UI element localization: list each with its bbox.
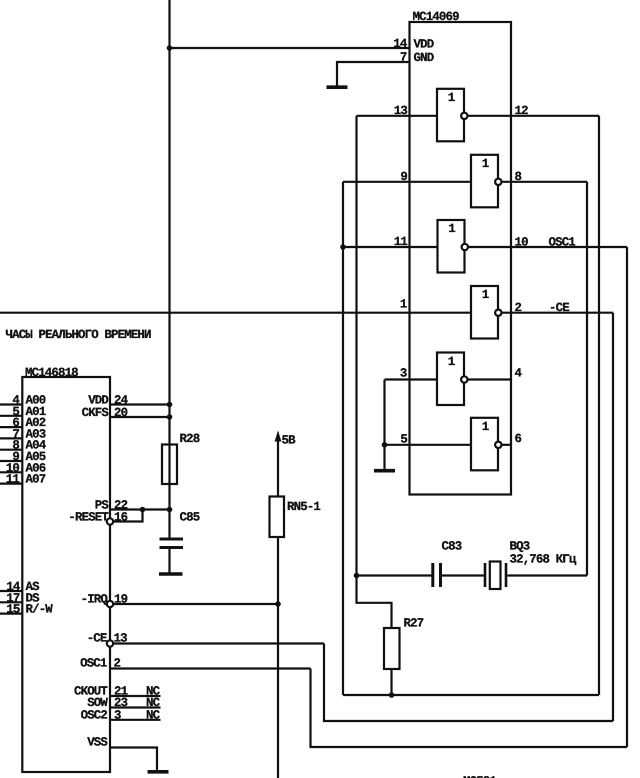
- wire pin14 AS stub: [0, 590, 22, 592]
- svg-text:12: 12: [515, 104, 529, 118]
- wire pin9 input inverter U1B: [343, 181, 471, 183]
- node junction -IRQ at RN5-1: [275, 601, 281, 607]
- wire pin4 A00 stub: [0, 403, 22, 405]
- chip MC14069 body: [410, 22, 512, 495]
- svg-text:R27: R27: [404, 617, 424, 631]
- svg-text:NC: NC: [146, 708, 161, 722]
- wire feedback vertical net pin12 pin9 pin11: [342, 182, 344, 695]
- ground for pin7: [327, 85, 348, 89]
- op inverter U1B box: [471, 155, 498, 208]
- svg-text:CKFS: CKFS: [82, 406, 110, 420]
- svg-text:-IRQ: -IRQ: [81, 593, 109, 607]
- svg-text:2: 2: [515, 301, 522, 315]
- wire pin22 PS: [110, 508, 170, 510]
- wire crystal row left segment: [357, 574, 432, 576]
- wire pin13 input inverter U1A: [357, 115, 438, 117]
- svg-text:13: 13: [394, 104, 408, 118]
- svg-text:3: 3: [400, 367, 407, 381]
- svg-text:OSC1: OSC1: [549, 235, 576, 249]
- wire BQ3 right segment: [507, 574, 587, 576]
- svg-text:VDD: VDD: [414, 38, 434, 52]
- wire pin2 output inverter U1D -CE: [498, 312, 613, 314]
- wire pin11 input inverter U1C: [343, 246, 438, 248]
- svg-text:9: 9: [400, 170, 407, 184]
- wire pin6 A02 stub: [0, 426, 22, 428]
- svg-text:1: 1: [482, 420, 489, 434]
- wire pin7 GND of MC14069: [337, 62, 411, 86]
- chip MC146818 body: [22, 377, 110, 772]
- svg-text:OSC1: OSC1: [80, 657, 107, 671]
- wire pin8 A04 stub: [0, 449, 22, 451]
- wire bottom loop pin12 net: [343, 694, 599, 696]
- wire pin15 R/-W stub: [0, 612, 22, 614]
- svg-text:1: 1: [448, 222, 455, 236]
- node junction crystal left net: [354, 573, 360, 579]
- wire bottom loop OSC1 net: [311, 669, 628, 748]
- wire bottom loop -CE net: [324, 644, 613, 722]
- ground for U1E U1F inputs: [374, 469, 395, 473]
- node junction PS net at R28 line: [167, 507, 173, 513]
- svg-text:MC14069: MC14069: [413, 10, 460, 24]
- node junction VDD net at R28 line: [167, 402, 173, 408]
- bubble output U1D: [495, 310, 501, 316]
- svg-text:ЧАСЫ РЕАЛЬНОГО ВРЕМЕНИ: ЧАСЫ РЕАЛЬНОГО ВРЕМЕНИ: [6, 328, 152, 342]
- ground for VSS: [148, 770, 169, 774]
- wire jog from crystal net down to R27: [357, 576, 392, 629]
- wire pin3 input inverter U1E: [385, 378, 438, 380]
- node junction pin11 to feedback vertical: [340, 244, 346, 250]
- bubble output U1F: [495, 442, 501, 448]
- op inverter U1C box: [438, 220, 465, 273]
- wire OSC1 right vertical: [626, 247, 628, 747]
- wire C83 to BQ3: [442, 574, 484, 576]
- wire pin24 VDD: [110, 403, 170, 405]
- bubble -CE inverted pin: [107, 640, 113, 646]
- wire RN5-1 bottom leg to bottom edge: [277, 537, 279, 778]
- wire pin16 -RESET: [113, 510, 142, 522]
- wire pin7 A03 stub: [0, 437, 22, 439]
- wire R27 bottom leg: [390, 669, 392, 695]
- wire -CE right vertical: [612, 313, 614, 721]
- bubble -IRQ inverted pin: [107, 601, 113, 607]
- wire pin14 VDD of MC14069: [170, 47, 411, 49]
- wire pin8 output inverter U1B: [498, 181, 587, 183]
- resistor R27: [384, 628, 400, 669]
- wire pin1 input inverter U1D from left edge: [0, 312, 471, 314]
- node junction PS wire at reset tie: [140, 507, 146, 513]
- wire pin2 OSC1: [110, 667, 311, 669]
- resistor R28: [162, 445, 177, 485]
- svg-text:7: 7: [400, 51, 407, 65]
- resistor RN5-1: [270, 497, 285, 538]
- wire pin3 OSC2 NC stub: [110, 719, 161, 721]
- svg-text:GND: GND: [414, 51, 434, 65]
- wire pin23 SOW NC stub: [110, 706, 161, 708]
- op inverter U1A box: [437, 89, 464, 142]
- svg-text:-RESET: -RESET: [68, 511, 109, 525]
- node junction R27 bottom on loop: [389, 692, 395, 698]
- wire pin12 right vertical: [598, 116, 600, 695]
- svg-text:BQ3: BQ3: [510, 540, 530, 554]
- svg-text:R/-W: R/-W: [26, 603, 54, 617]
- wire pin4 output inverter U1E: [464, 378, 511, 380]
- wire pin13 -CE: [113, 642, 324, 644]
- op inverter U1E box: [437, 353, 464, 406]
- wire pin9 A05 stub: [0, 460, 22, 462]
- svg-text:8: 8: [515, 170, 522, 184]
- svg-text:-CE: -CE: [549, 301, 569, 315]
- svg-text:15: 15: [6, 603, 20, 617]
- wire pin12 output inverter U1A: [464, 115, 599, 117]
- wire pin11 A07 stub: [0, 483, 22, 485]
- wire crystal left vertical net pin13: [355, 116, 357, 576]
- svg-text:C83: C83: [442, 540, 462, 554]
- svg-text:11: 11: [394, 235, 408, 249]
- wire pin21 CKOUT NC stub: [110, 695, 161, 697]
- wire pin19 -IRQ: [113, 603, 278, 605]
- svg-text:VSS: VSS: [87, 736, 108, 750]
- svg-text:1: 1: [448, 91, 455, 105]
- capacitor C83: [431, 563, 442, 587]
- node junction VDD net: [167, 45, 173, 51]
- svg-text:OSC2: OSC2: [81, 708, 108, 722]
- op inverter U1F box: [471, 418, 498, 471]
- wire VSS pin to ground: [110, 748, 157, 771]
- svg-text:10: 10: [515, 235, 529, 249]
- bubble output U1E: [461, 376, 467, 382]
- svg-text:32,768 КГц: 32,768 КГц: [510, 553, 577, 567]
- svg-text:R28: R28: [180, 432, 200, 446]
- node junction pin5 ground tie: [382, 442, 388, 448]
- wire pin6 output inverter U1F: [498, 444, 511, 446]
- ground for C85: [159, 572, 183, 576]
- node junction CKFS net at R28 line: [167, 414, 173, 420]
- svg-text:4: 4: [515, 367, 523, 381]
- bubble output U1A: [461, 113, 467, 119]
- bubble output U1B: [495, 179, 501, 185]
- svg-text:6: 6: [515, 432, 522, 446]
- bubble output U1C: [462, 244, 468, 250]
- svg-text:MC581: MC581: [463, 775, 496, 778]
- svg-text:RN5-1: RN5-1: [287, 500, 320, 514]
- svg-text:MC146818: MC146818: [25, 366, 78, 380]
- wire pin17 DS stub: [0, 601, 22, 603]
- svg-text:-CE: -CE: [87, 632, 107, 646]
- svg-text:14: 14: [393, 37, 408, 51]
- svg-text:C85: C85: [180, 511, 200, 525]
- crystal BQ3: [484, 562, 508, 590]
- wire VDD supply vertical net: [168, 0, 170, 573]
- bubble -RESET inverted pin: [107, 518, 113, 524]
- wire pin10 A06 stub: [0, 471, 22, 473]
- svg-text:1: 1: [448, 355, 455, 369]
- capacitor C85: [160, 538, 184, 550]
- wire input ground tie vertical U1E U1F: [383, 380, 385, 470]
- wire pin8 right vertical to crystal: [586, 182, 588, 576]
- svg-text:A07: A07: [26, 473, 46, 487]
- wire pin20 CKFS: [110, 416, 170, 418]
- svg-text:1: 1: [482, 288, 489, 302]
- wire pin5 input inverter U1F: [385, 444, 472, 446]
- svg-text:5В: 5В: [282, 434, 297, 448]
- svg-text:1: 1: [400, 298, 407, 312]
- op inverter U1D box: [471, 286, 498, 339]
- svg-text:5: 5: [400, 433, 407, 447]
- power +5V arrow: [275, 431, 282, 497]
- svg-text:11: 11: [6, 473, 20, 487]
- wire pin5 A01 stub: [0, 415, 22, 417]
- wire pin10 output inverter U1C OSC1: [465, 246, 627, 248]
- svg-text:1: 1: [482, 157, 489, 171]
